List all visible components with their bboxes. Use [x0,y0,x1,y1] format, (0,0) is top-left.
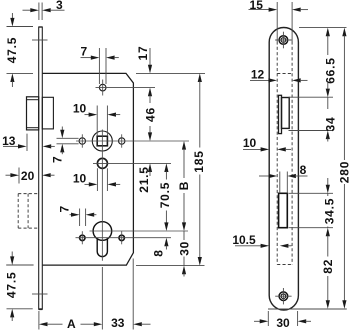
svg-text:10: 10 [73,171,87,185]
svg-text:33: 33 [111,316,125,330]
svg-text:185: 185 [192,150,206,172]
svg-text:47.5: 47.5 [5,272,19,299]
svg-text:30: 30 [177,241,191,256]
svg-text:3: 3 [56,0,63,12]
svg-text:82: 82 [321,259,335,274]
svg-text:10: 10 [73,102,87,116]
svg-text:13: 13 [2,134,16,148]
svg-text:10: 10 [243,136,257,150]
svg-text:280: 280 [338,161,350,183]
svg-text:34.5: 34.5 [322,198,336,225]
svg-text:30: 30 [276,316,290,330]
svg-text:8: 8 [151,249,165,256]
svg-text:7: 7 [58,205,72,212]
svg-text:A: A [67,317,76,331]
svg-text:66.5: 66.5 [324,57,338,84]
svg-text:34: 34 [324,117,338,132]
svg-text:46: 46 [144,107,158,122]
svg-text:21.5: 21.5 [137,166,151,193]
svg-text:15: 15 [250,0,264,12]
svg-text:12: 12 [251,68,265,82]
svg-text:47.5: 47.5 [5,37,19,64]
svg-text:7: 7 [51,156,65,163]
svg-text:10.5: 10.5 [232,233,256,247]
svg-text:7: 7 [80,45,87,59]
svg-text:70.5: 70.5 [158,182,172,209]
svg-text:8: 8 [300,163,307,177]
svg-text:17: 17 [136,46,150,61]
svg-text:20: 20 [21,169,35,183]
svg-text:B: B [177,181,191,190]
